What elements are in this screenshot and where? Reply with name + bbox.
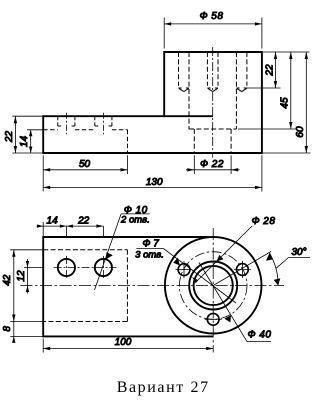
- svg-text:14: 14: [47, 215, 59, 226]
- svg-text:Ф 7: Ф 7: [143, 239, 160, 250]
- hidden: pocket end wall: [127, 130, 129, 153]
- dim 22 right line: [275, 52, 277, 88]
- hole C2 centerline (front): [102, 113, 104, 135]
- hidden: pocket ceiling: [43, 129, 127, 131]
- svg-text:Ф 22: Ф 22: [200, 159, 224, 170]
- hole 2 bottom: [207, 88, 218, 92]
- svg-text:Ф 58: Ф 58: [200, 11, 224, 22]
- cylinder vertical centerline: [212, 47, 214, 158]
- svg-text:30°: 30°: [291, 247, 306, 258]
- main horizontal centerline: [21, 285, 285, 287]
- front view outline: [43, 52, 262, 153]
- phi7 hole upper-right: [237, 264, 249, 276]
- hidden: phi22 hole sides: [194, 129, 231, 153]
- svg-text:100: 100: [115, 337, 132, 348]
- phi7 bottom hole cross: [205, 318, 222, 320]
- svg-text:14: 14: [19, 136, 30, 148]
- dim 100 ext line: [42, 339, 44, 353]
- svg-text:60: 60: [295, 126, 306, 138]
- svg-text:Вариант 27: Вариант 27: [117, 379, 210, 396]
- svg-text:2 отв.: 2 отв.: [120, 214, 150, 225]
- svg-text:Ф 40: Ф 40: [248, 330, 272, 341]
- phi10 hole 2 bottom feet: [95, 125, 112, 127]
- dim 50 line: [43, 169, 127, 171]
- leader phi40 through centre: [199, 263, 247, 342]
- phi10 hole 1 bottom feet: [58, 125, 75, 127]
- phi7 upper-right hole cross: [234, 261, 251, 278]
- 30 deg arc: [270, 253, 279, 286]
- dim phi22 line with outside arrows: [186, 169, 240, 171]
- svg-text:45: 45: [280, 97, 291, 109]
- left dims extension lines: [12, 116, 43, 153]
- dim phi58 extension lines: [164, 18, 262, 49]
- dim phi58 line: [164, 23, 262, 25]
- dim 42 line: [13, 250, 15, 322]
- phi7 hole bottom: [207, 313, 219, 325]
- hidden: phi7 hole 3 sides: [246, 52, 248, 86]
- hole 3 bottom: [236, 88, 247, 92]
- hidden: phi28 bore bottom shoulder: [189, 128, 236, 130]
- hidden: phi28 bore right edge (shared with hole3): [235, 52, 237, 129]
- dim 100 line: [43, 348, 213, 350]
- inner arrowhead on phi28 circle: [192, 277, 198, 283]
- svg-text:42: 42: [2, 274, 13, 286]
- plate top edge in front of cylinder: [164, 115, 213, 117]
- svg-text:Ф 28: Ф 28: [252, 216, 276, 227]
- dim 45 line: [290, 52, 292, 129]
- phi22 circle: [194, 266, 233, 305]
- plate hole 1 (phi10): [58, 259, 75, 276]
- hidden: phi7 hole 2 sides: [207, 52, 218, 86]
- svg-text:22: 22: [77, 215, 90, 226]
- hidden: phi10 hole 2 sides: [95, 116, 112, 126]
- dim 8 line: [13, 322, 15, 343]
- leader phi10: [95, 214, 122, 290]
- dim 14 line: [30, 130, 32, 153]
- hidden: phi10 hole 1 sides: [58, 116, 75, 126]
- dim 14 plan line: [37, 225, 104, 227]
- hole 1 bottom: [179, 88, 190, 92]
- svg-text:22: 22: [4, 131, 15, 144]
- right dims extension lines: [238, 52, 311, 153]
- svg-text:3 отв.: 3 отв.: [135, 250, 164, 261]
- phi58 cylinder circle: [165, 237, 262, 334]
- phi28 circle: [189, 262, 237, 310]
- main vertical centerline: [212, 228, 214, 353]
- plan top dims ext lines: [43, 222, 103, 237]
- plate holes horizontal centerline: [54, 267, 117, 269]
- phi40 bolt circle (dash-dot): [179, 252, 247, 320]
- phi7 hole upper-left: [178, 264, 190, 276]
- bottom dims extension lines: [43, 155, 262, 191]
- svg-text:50: 50: [79, 159, 91, 170]
- plan plate outline: [43, 237, 213, 336]
- leader phi28: [195, 226, 252, 283]
- svg-text:22: 22: [264, 64, 275, 77]
- dim 130 line: [43, 186, 262, 188]
- svg-text:12: 12: [16, 270, 27, 282]
- svg-text:130: 130: [146, 177, 163, 188]
- dim 60 line: [305, 52, 307, 153]
- hidden: pocket outline in plan: [43, 249, 127, 251]
- plate hole 2 (phi10): [95, 259, 112, 276]
- phi7 upper-left hole cross: [176, 261, 193, 278]
- leader phi7 through hole to centre: [163, 249, 236, 304]
- dim 22 left line: [14, 116, 16, 153]
- hidden: phi28 bore left edge (shared with hole1): [188, 52, 190, 129]
- 30 deg ray: [213, 252, 271, 286]
- hidden: phi7 hole 1 sides: [178, 52, 180, 86]
- svg-text:8: 8: [2, 326, 13, 332]
- dim 12 line: [27, 259, 29, 294]
- hole C1 centerline (front): [65, 113, 67, 135]
- plate hole vertical centerlines: [66, 256, 103, 279]
- plan left dims ext lines: [10, 250, 43, 337]
